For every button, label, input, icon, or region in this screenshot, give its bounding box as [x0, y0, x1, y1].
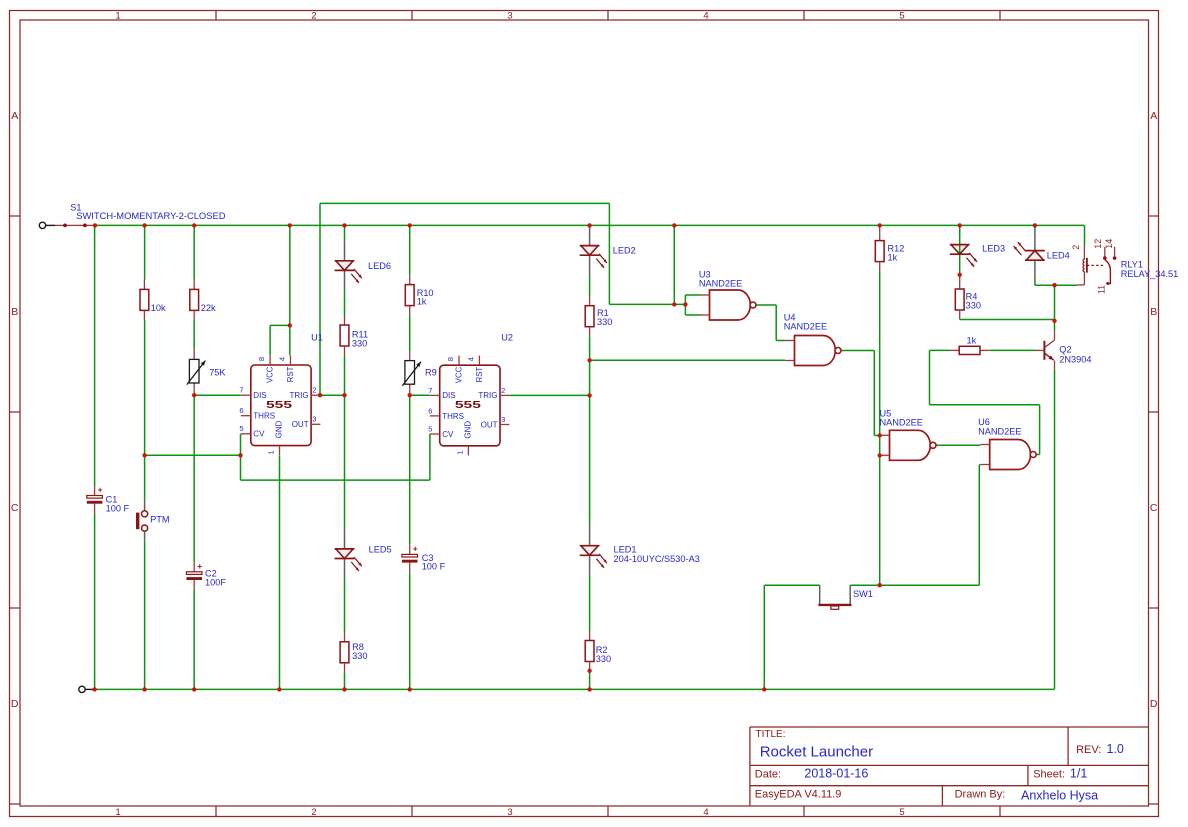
svg-text:A: A — [11, 110, 18, 122]
svg-text:NAND2EE: NAND2EE — [784, 322, 827, 332]
svg-text:5: 5 — [239, 424, 243, 433]
svg-text:10k: 10k — [151, 303, 166, 313]
svg-text:100 F: 100 F — [106, 504, 130, 514]
svg-text:C: C — [11, 502, 19, 514]
svg-text:1: 1 — [267, 450, 276, 454]
svg-text:RLY1: RLY1 — [1121, 259, 1143, 269]
svg-text:NAND2EE: NAND2EE — [699, 279, 742, 289]
svg-text:OUT: OUT — [481, 420, 498, 429]
svg-text:Date:: Date: — [755, 769, 781, 781]
svg-text:12: 12 — [1093, 239, 1103, 249]
svg-text:+: + — [197, 561, 202, 571]
svg-text:A: A — [1150, 110, 1157, 122]
svg-text:Q2: Q2 — [1059, 345, 1071, 355]
svg-text:75K: 75K — [209, 368, 226, 378]
svg-text:1.0: 1.0 — [1107, 742, 1124, 756]
svg-text:3: 3 — [507, 10, 512, 21]
svg-text:1k: 1k — [967, 335, 977, 345]
svg-text:PTM: PTM — [150, 515, 169, 525]
svg-text:6: 6 — [428, 406, 432, 415]
svg-text:U1: U1 — [311, 333, 323, 343]
svg-text:100F: 100F — [205, 577, 226, 587]
svg-text:8: 8 — [446, 357, 455, 361]
svg-text:D: D — [1150, 698, 1158, 710]
svg-text:RST: RST — [286, 366, 295, 382]
svg-text:TITLE:: TITLE: — [756, 729, 786, 740]
svg-text:DIS: DIS — [253, 391, 266, 400]
svg-text:2N3904: 2N3904 — [1059, 355, 1091, 365]
svg-text:B: B — [11, 306, 18, 318]
svg-text:RELAY_34.51: RELAY_34.51 — [1121, 269, 1179, 279]
svg-text:330: 330 — [352, 651, 367, 661]
svg-text:2: 2 — [311, 807, 316, 818]
svg-text:LED3: LED3 — [982, 244, 1005, 254]
svg-text:3: 3 — [507, 807, 512, 818]
svg-text:OUT: OUT — [292, 420, 309, 429]
svg-text:LED4: LED4 — [1047, 251, 1070, 261]
svg-text:Rocket Launcher: Rocket Launcher — [760, 744, 873, 761]
svg-text:LED2: LED2 — [613, 246, 636, 256]
svg-text:NAND2EE: NAND2EE — [880, 418, 923, 428]
svg-text:22k: 22k — [201, 303, 216, 313]
svg-text:SWITCH-MOMENTARY-2-CLOSED: SWITCH-MOMENTARY-2-CLOSED — [76, 210, 226, 221]
svg-text:4: 4 — [703, 807, 708, 818]
svg-text:1: 1 — [115, 807, 120, 818]
svg-text:TRIG: TRIG — [478, 391, 497, 400]
svg-text:RST: RST — [475, 367, 484, 383]
svg-text:7: 7 — [428, 386, 432, 395]
svg-text:1k: 1k — [417, 297, 427, 307]
svg-text:330: 330 — [596, 654, 611, 664]
svg-text:11: 11 — [1097, 285, 1107, 294]
svg-text:R9: R9 — [425, 368, 437, 378]
svg-text:NAND2EE: NAND2EE — [978, 426, 1021, 436]
svg-text:EasyEDA V4.11.9: EasyEDA V4.11.9 — [755, 789, 842, 801]
svg-text:1: 1 — [456, 451, 465, 455]
svg-text:1k: 1k — [888, 252, 898, 262]
svg-text:1/1: 1/1 — [1070, 767, 1087, 781]
svg-text:TRIG: TRIG — [289, 391, 308, 400]
svg-text:CV: CV — [442, 430, 454, 439]
svg-text:2018-01-16: 2018-01-16 — [804, 767, 868, 781]
svg-text:555: 555 — [266, 400, 293, 411]
svg-text:CV: CV — [253, 430, 265, 439]
svg-text:5: 5 — [428, 424, 432, 433]
svg-text:C: C — [1150, 502, 1158, 514]
svg-text:8: 8 — [257, 357, 266, 361]
svg-text:B: B — [1150, 306, 1157, 318]
svg-text:LED5: LED5 — [369, 545, 392, 555]
svg-text:2: 2 — [1071, 245, 1081, 250]
svg-text:5: 5 — [899, 807, 904, 818]
svg-text:THRS: THRS — [442, 412, 464, 421]
svg-text:7: 7 — [239, 386, 243, 395]
svg-text:U2: U2 — [501, 333, 513, 343]
svg-text:4: 4 — [466, 357, 475, 361]
svg-text:2: 2 — [312, 386, 316, 395]
svg-text:LED6: LED6 — [368, 261, 391, 271]
svg-text:GND: GND — [464, 421, 473, 439]
svg-text:2: 2 — [311, 10, 316, 21]
svg-text:4: 4 — [703, 10, 708, 21]
svg-text:330: 330 — [597, 317, 612, 327]
svg-text:3: 3 — [312, 415, 316, 424]
svg-text:Drawn By:: Drawn By: — [955, 789, 1006, 801]
svg-text:1: 1 — [115, 10, 120, 21]
svg-text:REV:: REV: — [1076, 744, 1101, 756]
svg-text:3: 3 — [501, 415, 505, 424]
svg-text:2: 2 — [501, 386, 505, 395]
svg-text:204-10UYC/S530-A3: 204-10UYC/S530-A3 — [614, 554, 700, 564]
svg-text:Anxhelo Hysa: Anxhelo Hysa — [1021, 789, 1098, 803]
svg-text:Sheet:: Sheet: — [1033, 769, 1065, 781]
svg-text:4: 4 — [278, 357, 287, 361]
svg-text:100 F: 100 F — [422, 562, 446, 572]
svg-text:VCC: VCC — [266, 366, 275, 383]
svg-text:D: D — [11, 698, 19, 710]
svg-text:GND: GND — [275, 420, 284, 438]
svg-text:+: + — [98, 485, 103, 495]
svg-text:330: 330 — [966, 300, 981, 310]
svg-text:330: 330 — [352, 338, 367, 348]
svg-text:14: 14 — [1104, 239, 1114, 249]
svg-text:555: 555 — [455, 400, 482, 411]
svg-text:5: 5 — [899, 10, 904, 21]
svg-text:+: + — [413, 543, 418, 553]
svg-text:DIS: DIS — [442, 391, 455, 400]
svg-text:VCC: VCC — [455, 366, 464, 383]
svg-text:6: 6 — [239, 406, 243, 415]
svg-text:SW1: SW1 — [853, 589, 873, 599]
svg-text:THRS: THRS — [253, 412, 275, 421]
